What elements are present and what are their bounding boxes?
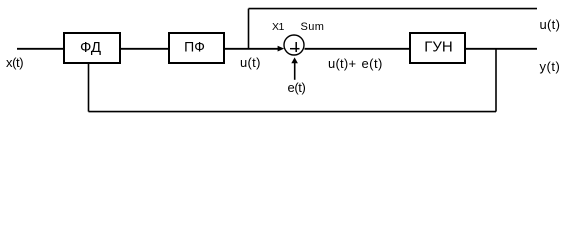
block ФД (phase detector) U1: [64, 33, 120, 63]
summer plus sign: [290, 48, 300, 50]
block ГУН (VCO) U3: [410, 33, 465, 63]
svg-text:ФД: ФД: [80, 39, 101, 56]
svg-text:u(t): u(t): [240, 55, 261, 70]
wire feedback left vertical into ФД: [88, 64, 90, 112]
wire ФД to ПФ: [121, 48, 168, 50]
svg-text:ГУН: ГУН: [424, 38, 452, 55]
svg-text:u(t)+: u(t)+: [328, 56, 356, 71]
wire feedback right vertical: [495, 49, 497, 112]
wire ПФ to sum junction: [225, 48, 278, 50]
arrowhead into sum junction: [278, 46, 285, 52]
summer X1 (circle): [284, 35, 304, 55]
svg-text:x(t): x(t): [6, 55, 23, 70]
wire u(t) feedforward top line: [249, 8, 538, 10]
svg-text:u(t): u(t): [540, 17, 561, 32]
svg-text:y(t): y(t): [540, 59, 561, 74]
arrowhead e(t) into summer: [291, 57, 298, 63]
node u(t) branch junction: [248, 9, 250, 49]
wire feedback bottom horizontal: [89, 111, 497, 113]
wire ГУН to output y(t): [466, 48, 537, 50]
svg-text:e(t): e(t): [362, 56, 383, 71]
wire input x(t) to ФД: [17, 48, 63, 50]
wire summer to ГУН: [305, 48, 410, 50]
svg-text:Sum: Sum: [301, 21, 325, 33]
svg-text:X1: X1: [272, 21, 285, 33]
wire e(t) into summer: [294, 63, 296, 80]
svg-text:ПФ: ПФ: [184, 39, 205, 55]
block ПФ (loop filter) U2: [169, 33, 224, 63]
svg-text:e(t): e(t): [288, 80, 306, 95]
